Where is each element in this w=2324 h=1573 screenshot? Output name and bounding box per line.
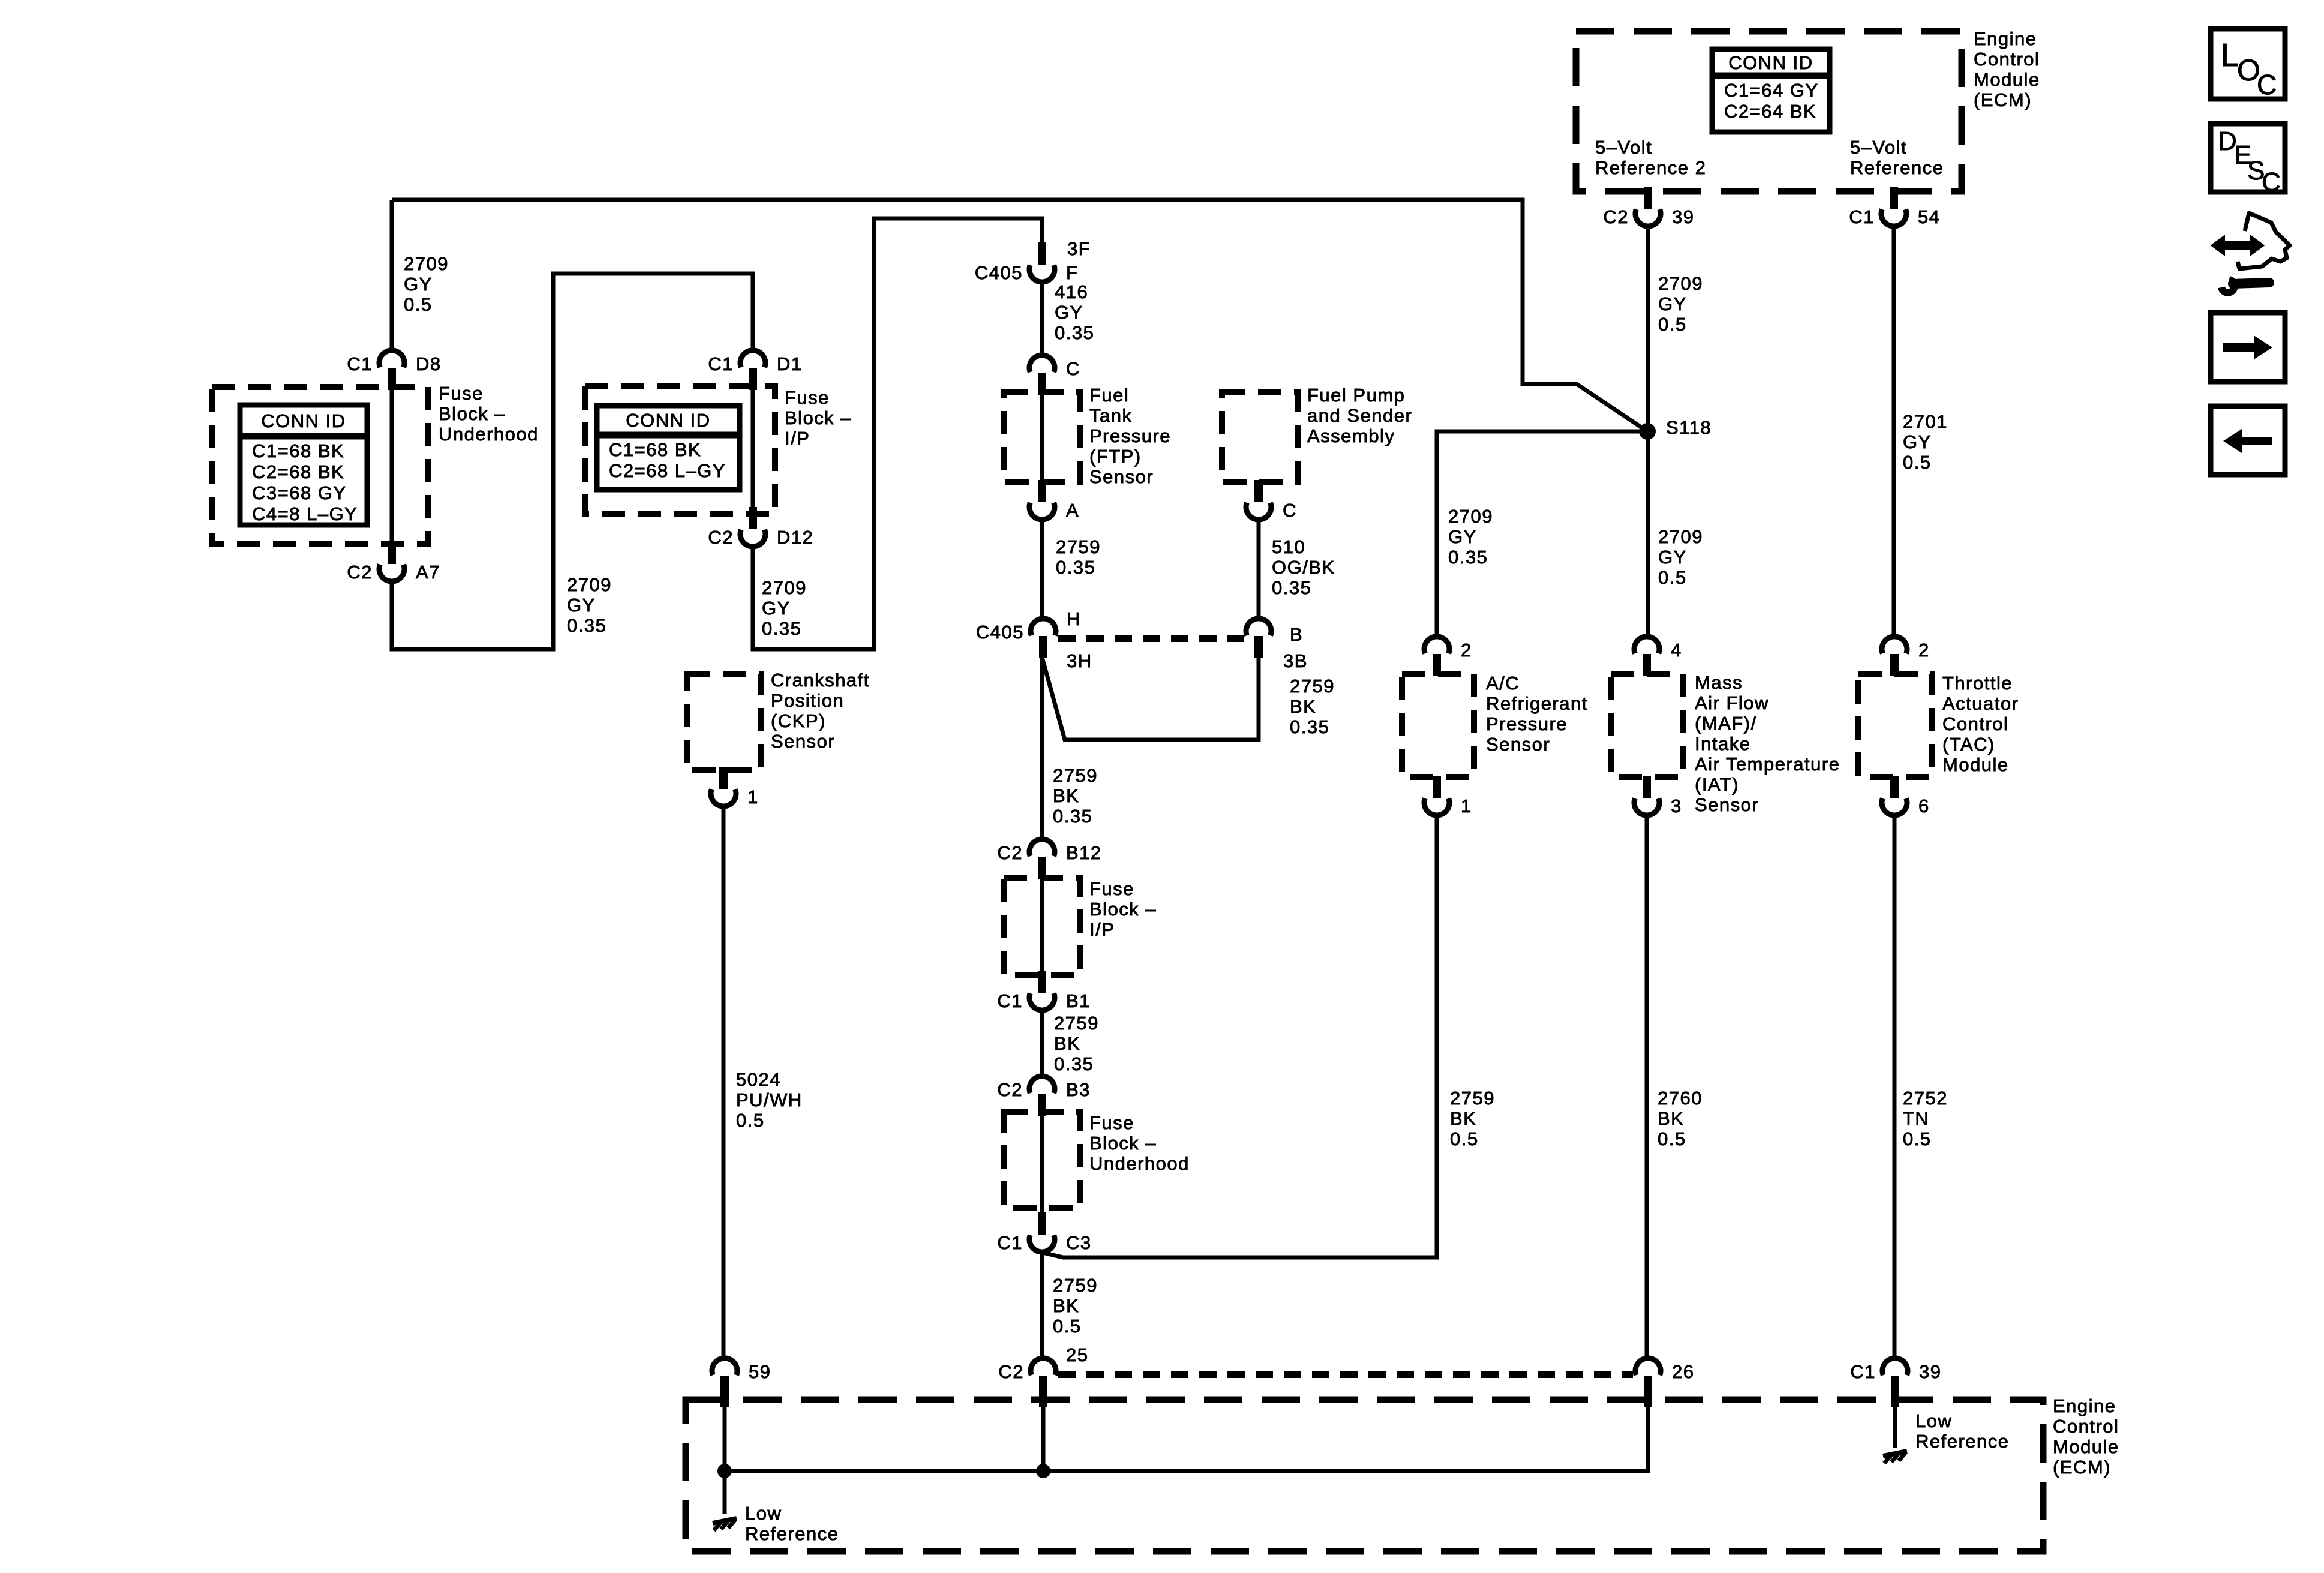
svg-text:C2: C2 — [1603, 206, 1629, 227]
svg-text:Module: Module — [1974, 69, 2040, 90]
connector C405 pin F — [975, 242, 1079, 283]
ground low reference right — [1883, 1451, 1907, 1463]
svg-text:C1: C1 — [708, 353, 734, 374]
connector FTP sensor pin A — [1029, 480, 1079, 521]
connector ECM C1 pin 39 (low reference) — [1850, 1358, 1941, 1407]
svg-text:C1=68 BK: C1=68 BK — [252, 440, 344, 461]
svg-text:0.5: 0.5 — [404, 294, 433, 315]
svg-text:Fuse: Fuse — [439, 383, 484, 404]
connector ECM C2 pin 25 — [998, 1358, 1056, 1407]
label Mass Air Flow (MAF)/Intake Air Temperature (IAT) Sensor — [1695, 672, 1840, 815]
wire 2709 GY 0.5 from ECM C2 39 through S118 to MAF pin 4 — [1646, 226, 1650, 637]
fuel tank pressure (FTP) sensor box — [1004, 392, 1080, 482]
svg-text:B: B — [1290, 624, 1303, 645]
svg-text:BK: BK — [1054, 1033, 1080, 1054]
svg-text:2709: 2709 — [1448, 506, 1493, 527]
svg-text:Fuel Pump: Fuel Pump — [1307, 385, 1405, 406]
wire 2759 BK 0.5 branch from C3 to A/C pressure sensor pin 1 — [1043, 815, 1437, 1257]
label Fuse Block - I/P 2 — [1089, 878, 1157, 940]
svg-text:C2=68 L–GY: C2=68 L–GY — [609, 460, 726, 481]
svg-text:2760: 2760 — [1658, 1088, 1703, 1109]
svg-text:(TAC): (TAC) — [1942, 734, 1995, 755]
svg-text:510: 510 — [1272, 536, 1305, 557]
svg-text:(MAF)/: (MAF)/ — [1695, 713, 1757, 734]
connector A/C pressure sensor pin 2 — [1424, 637, 1472, 676]
svg-text:OG/BK: OG/BK — [1272, 557, 1335, 578]
svg-text:GY: GY — [1658, 547, 1687, 568]
svg-text:Position: Position — [771, 690, 844, 711]
splice S118 — [1639, 423, 1656, 440]
fuse block - I/P box 1 — [585, 386, 775, 514]
connector ECM C2 pin 39 (5-volt reference 2) — [1603, 187, 1694, 227]
svg-text:(IAT): (IAT) — [1695, 774, 1739, 795]
connector fuel pump pin C — [1246, 480, 1297, 521]
svg-text:BK: BK — [1290, 696, 1316, 717]
svg-text:0.35: 0.35 — [1272, 577, 1311, 598]
junction low reference bus at pin 25 — [1036, 1464, 1050, 1478]
svg-text:GY: GY — [762, 598, 791, 619]
icon LOC box — [2211, 29, 2285, 100]
svg-text:D8: D8 — [416, 353, 442, 374]
wire 2701 GY 0.5 from ECM C1 54 to TAC module pin 2 — [1892, 226, 1896, 637]
wire 2709 GY 0.5 from S118 up/left to Fuse Block Underhood C1 D8 — [392, 200, 1647, 431]
connector C2 B12 fuse block I/P — [997, 839, 1101, 879]
svg-text:Block –: Block – — [439, 403, 506, 424]
svg-text:2759: 2759 — [1053, 1275, 1098, 1296]
icon DESC box — [2211, 124, 2285, 197]
crankshaft position (CKP) sensor box — [687, 674, 761, 770]
svg-text:F: F — [1066, 262, 1078, 283]
label Crankshaft Position (CKP) Sensor — [771, 670, 870, 752]
svg-text:2709: 2709 — [1658, 273, 1703, 294]
fuse block - underhood box 2 — [1004, 1112, 1080, 1208]
svg-text:and Sender: and Sender — [1307, 405, 1412, 426]
svg-text:1: 1 — [1461, 795, 1472, 816]
svg-text:(ECM): (ECM) — [2053, 1457, 2111, 1478]
svg-text:C: C — [2257, 69, 2278, 100]
wire 5024 PU/WH 0.5 from CKP sensor pin 1 to ECM pin 59 — [722, 806, 726, 1359]
svg-text:2709: 2709 — [762, 577, 807, 598]
wire label 5024 PU/WH 0.5 — [736, 1069, 803, 1131]
wire 2709 GY 0.35 from A7 to Fuse Block I/P C1 D1 — [392, 274, 753, 649]
svg-text:0.5: 0.5 — [736, 1110, 765, 1131]
CONN ID table (ECM): C1=64 GY, C2=64 BK — [1712, 49, 1830, 132]
svg-text:Tank: Tank — [1089, 405, 1132, 426]
svg-text:6: 6 — [1918, 795, 1930, 816]
svg-text:Throttle: Throttle — [1942, 673, 2013, 694]
label 5-Volt Reference 2 — [1595, 137, 1706, 178]
svg-text:Control: Control — [1974, 49, 2040, 70]
wire through Fuse Block I/P B12 to B1 — [1040, 879, 1044, 974]
svg-text:0.35: 0.35 — [1290, 716, 1329, 737]
wire label 2752 TN 0.5 (TAC pin 6) — [1903, 1088, 1948, 1149]
label 5-Volt Reference — [1850, 137, 1944, 178]
svg-text:Sensor: Sensor — [1486, 734, 1550, 755]
label 25 — [1066, 1344, 1088, 1365]
svg-text:(FTP): (FTP) — [1089, 446, 1142, 467]
svg-text:PU/WH: PU/WH — [736, 1089, 803, 1110]
svg-text:2: 2 — [1918, 640, 1930, 661]
svg-text:C1=64 GY: C1=64 GY — [1724, 80, 1819, 101]
svg-text:0.35: 0.35 — [567, 615, 606, 636]
svg-text:GY: GY — [567, 595, 596, 616]
connector CKP sensor pin 1 — [711, 767, 759, 807]
svg-text:Module: Module — [1942, 754, 2009, 775]
svg-text:0.5: 0.5 — [1658, 567, 1687, 588]
icon double arrow with outline and wrench — [2212, 213, 2290, 293]
svg-text:GY: GY — [1055, 302, 1083, 323]
label 3H — [1067, 650, 1092, 671]
wire 2759 BK 0.35 from C405 B joining H junction — [1043, 658, 1259, 740]
wire label 2759 BK 0.5 (A/C pin 1) — [1450, 1088, 1495, 1149]
wire 510 OG/BK 0.35 from fuel pump C to C405 B — [1257, 520, 1261, 619]
svg-text:0.35: 0.35 — [1053, 806, 1092, 827]
svg-text:C4=8 L–GY: C4=8 L–GY — [252, 503, 358, 524]
svg-text:1: 1 — [747, 786, 759, 807]
svg-text:0.35: 0.35 — [1055, 322, 1094, 343]
wire 416 GY 0.35 from C405 F to FTP sensor pin C — [1040, 282, 1044, 356]
svg-text:Control: Control — [2053, 1416, 2119, 1437]
svg-text:2: 2 — [1461, 640, 1472, 661]
wire 2759 0.35 from FTP A to C405 H — [1040, 520, 1044, 619]
wire label 2709 GY 0.35 (D12) — [762, 577, 807, 639]
label Low Reference left — [745, 1503, 839, 1544]
svg-text:39: 39 — [1919, 1361, 1941, 1382]
connector C2 D12 fuse block I/P — [708, 507, 813, 548]
label Engine Control Module (ECM) top — [1974, 28, 2040, 110]
svg-text:(CKP): (CKP) — [771, 710, 826, 731]
svg-text:Underhood: Underhood — [1089, 1153, 1190, 1174]
throttle actuator control (TAC) module box — [1858, 674, 1932, 777]
wire label 2709 GY 0.35 (A/C pin 2) — [1448, 506, 1493, 568]
svg-text:Actuator: Actuator — [1942, 693, 2019, 714]
icon forward arrow box — [2211, 313, 2285, 382]
svg-text:2759: 2759 — [1053, 765, 1098, 786]
label B — [1290, 624, 1303, 645]
mass air flow (MAF)/IAT sensor box — [1611, 674, 1683, 777]
svg-text:A/C: A/C — [1486, 673, 1520, 694]
svg-text:C1: C1 — [1850, 1361, 1876, 1382]
connector TAC module pin 2 — [1882, 637, 1930, 676]
wire label 2759 BK 0.35 (3B) — [1290, 676, 1335, 737]
connector C2 A7 fuse block underhood — [347, 542, 440, 583]
svg-text:I/P: I/P — [785, 428, 810, 449]
wire 2752 TN 0.5 from TAC pin 6 to ECM C1 39 — [1893, 815, 1897, 1359]
connector C405 pin H — [976, 619, 1056, 658]
svg-text:H: H — [1067, 608, 1081, 629]
wire label 2759 BK 0.35 (B1-B3) — [1054, 1013, 1099, 1074]
svg-text:26: 26 — [1672, 1361, 1694, 1382]
ground low reference left — [713, 1518, 737, 1530]
connector ECM C1 pin 54 (5-volt reference) — [1849, 187, 1940, 227]
svg-text:C1: C1 — [997, 1232, 1023, 1253]
label 3F — [1067, 238, 1091, 259]
svg-text:Engine: Engine — [2053, 1395, 2116, 1416]
svg-text:Fuse: Fuse — [785, 387, 830, 408]
engine control module (ECM) top box — [1576, 31, 1962, 191]
label 3B — [1283, 650, 1308, 671]
label Fuel Pump and Sender Assembly — [1307, 385, 1412, 446]
svg-text:C1: C1 — [997, 990, 1023, 1011]
svg-text:GY: GY — [1903, 431, 1932, 452]
svg-text:C2: C2 — [997, 1079, 1023, 1100]
svg-text:Control: Control — [1942, 713, 2008, 734]
svg-text:C2=64 BK: C2=64 BK — [1724, 101, 1816, 122]
svg-text:C2: C2 — [347, 562, 373, 583]
wire label 2709 GY 0.5 (above S118) — [1658, 273, 1703, 335]
svg-text:CONN ID: CONN ID — [1728, 52, 1813, 73]
svg-text:2752: 2752 — [1903, 1088, 1948, 1109]
svg-text:0.35: 0.35 — [1054, 1053, 1094, 1074]
label Fuse Block - I/P 1 — [785, 387, 852, 449]
wire label 2759 BK 0.5 (C3-25) — [1053, 1275, 1098, 1337]
svg-text:BK: BK — [1658, 1108, 1684, 1129]
svg-text:Block –: Block – — [1089, 1133, 1157, 1154]
wire label 2759 BK 0.35 (H-B12) — [1053, 765, 1098, 827]
svg-text:CONN ID: CONN ID — [626, 410, 710, 431]
svg-text:C2: C2 — [708, 527, 734, 548]
svg-text:Intake: Intake — [1695, 733, 1750, 754]
svg-text:Pressure: Pressure — [1089, 425, 1171, 446]
label Throttle Actuator Control (TAC) Module — [1942, 673, 2019, 775]
svg-text:2759: 2759 — [1290, 676, 1335, 697]
wire drop to connector C1 D8 — [390, 200, 394, 351]
svg-text:416: 416 — [1055, 281, 1088, 302]
connector MAF sensor pin 4 — [1634, 637, 1682, 676]
wire 2759 BK 0.35 from C405 H down to C2 B12 — [1040, 658, 1044, 840]
svg-text:BK: BK — [1450, 1108, 1476, 1129]
dashed connector link C405 H to B — [1058, 635, 1244, 642]
svg-text:Sensor: Sensor — [1695, 794, 1759, 815]
CONN ID table (I/P): C1=68 BK, C2=68 L-GY — [597, 406, 740, 490]
wire through Fuse Block Underhood D8 to A7 — [390, 390, 394, 546]
svg-text:2709: 2709 — [404, 253, 449, 274]
connector FTP sensor pin C — [1029, 355, 1080, 395]
wire through FTP sensor C to A — [1040, 395, 1044, 484]
label H — [1067, 608, 1081, 629]
svg-text:3B: 3B — [1283, 650, 1308, 671]
svg-text:2709: 2709 — [567, 574, 612, 595]
svg-text:2759: 2759 — [1450, 1088, 1495, 1109]
connector ECM pin 26 — [1635, 1358, 1694, 1407]
label Fuse Block - Underhood 1 — [439, 383, 539, 445]
svg-text:C405: C405 — [975, 262, 1023, 283]
svg-text:0.35: 0.35 — [1056, 557, 1095, 578]
wire inside ECM from pin 25 to low reference bus — [1041, 1398, 1046, 1471]
svg-text:B3: B3 — [1066, 1079, 1091, 1100]
wire label 2759 0.35 — [1056, 536, 1101, 578]
wire through Fuse Block I/P D1 to D12 — [751, 390, 755, 510]
svg-text:0.5: 0.5 — [1658, 1128, 1686, 1149]
svg-text:Sensor: Sensor — [1089, 466, 1154, 487]
svg-text:5–Volt: 5–Volt — [1595, 137, 1652, 158]
svg-text:C: C — [1066, 358, 1080, 379]
svg-text:Underhood: Underhood — [439, 424, 539, 445]
svg-text:GY: GY — [404, 274, 433, 295]
svg-text:59: 59 — [749, 1361, 771, 1382]
svg-text:Air Flow: Air Flow — [1695, 692, 1769, 713]
svg-text:C1: C1 — [347, 353, 373, 374]
svg-text:25: 25 — [1066, 1344, 1088, 1365]
svg-text:4: 4 — [1671, 640, 1682, 661]
svg-text:C405: C405 — [976, 622, 1024, 643]
wire 2760 BK 0.5 from MAF pin 3 to ECM pin 26 — [1645, 815, 1649, 1359]
svg-text:0.35: 0.35 — [762, 618, 801, 639]
wire 2759 BK 0.5 from C3 down to ECM pin 25 — [1040, 1252, 1044, 1359]
svg-text:Sensor: Sensor — [771, 731, 835, 752]
svg-text:Air Temperature: Air Temperature — [1695, 754, 1840, 775]
svg-text:Reference: Reference — [745, 1523, 839, 1544]
svg-text:0.5: 0.5 — [1903, 1128, 1932, 1149]
wire to ground low reference right — [1893, 1398, 1897, 1448]
svg-text:D1: D1 — [777, 353, 803, 374]
svg-text:Mass: Mass — [1695, 672, 1743, 693]
label Fuel Tank Pressure (FTP) Sensor — [1089, 385, 1171, 487]
wire 2709 GY 0.35 from D12 to C405 F — [753, 218, 1042, 649]
svg-text:Fuel: Fuel — [1089, 385, 1129, 406]
fuel pump and sender assembly box — [1222, 392, 1298, 482]
svg-text:Low: Low — [1915, 1410, 1952, 1431]
svg-text:0.5: 0.5 — [1053, 1316, 1082, 1337]
wire label 510 OG/BK 0.35 — [1272, 536, 1335, 598]
svg-text:Refrigerant: Refrigerant — [1486, 693, 1588, 714]
connector C1 D1 fuse block I/P — [708, 350, 802, 390]
svg-text:C1: C1 — [1849, 206, 1875, 227]
svg-text:2709: 2709 — [1658, 526, 1703, 547]
svg-text:CONN ID: CONN ID — [261, 410, 346, 431]
label Fuse Block - Underhood 2 — [1089, 1112, 1190, 1174]
wire label 2760 BK 0.5 (MAF pin 3) — [1658, 1088, 1703, 1149]
svg-text:0.5: 0.5 — [1658, 314, 1687, 335]
connector TAC module pin 6 — [1882, 776, 1930, 816]
wire inside ECM from pin 59 to low reference bus — [723, 1398, 727, 1471]
svg-text:Low: Low — [745, 1503, 782, 1524]
wire label 2709 GY 0.35 (A7-D1) — [567, 574, 612, 636]
svg-text:Block –: Block – — [785, 407, 852, 428]
svg-text:Block –: Block – — [1089, 899, 1157, 920]
svg-text:3F: 3F — [1067, 238, 1091, 259]
svg-text:Assembly: Assembly — [1307, 425, 1395, 446]
svg-text:C2=68 BK: C2=68 BK — [252, 461, 344, 482]
wire 2759 BK 0.35 from B1 to B3 — [1040, 1010, 1044, 1077]
connector C2 B3 fuse block underhood — [997, 1076, 1091, 1116]
low reference bus inside ECM to pin 26 — [725, 1398, 1648, 1471]
svg-text:A: A — [1066, 500, 1079, 521]
svg-text:BK: BK — [1053, 1295, 1079, 1316]
svg-text:I/P: I/P — [1089, 919, 1115, 940]
svg-text:Crankshaft: Crankshaft — [771, 670, 870, 691]
svg-text:A7: A7 — [416, 562, 440, 583]
label A/C Refrigerant Pressure Sensor — [1486, 673, 1588, 755]
svg-text:Reference: Reference — [1850, 157, 1944, 178]
wire through Fuse Block Underhood B3 to C3 — [1040, 1116, 1044, 1215]
svg-text:B1: B1 — [1066, 990, 1091, 1011]
svg-text:Reference: Reference — [1915, 1431, 2010, 1452]
engine control module (ECM) bottom box — [686, 1400, 2043, 1551]
svg-text:Module: Module — [2053, 1436, 2119, 1457]
svg-text:Fuse: Fuse — [1089, 1112, 1134, 1133]
fuse block - underhood box 1 — [212, 387, 428, 544]
svg-text:(ECM): (ECM) — [1974, 89, 2032, 110]
label Low Reference right — [1915, 1410, 2010, 1452]
svg-text:GY: GY — [1448, 526, 1477, 547]
svg-text:5–Volt: 5–Volt — [1850, 137, 1907, 158]
svg-text:Engine: Engine — [1974, 28, 2037, 49]
fuse block - I/P box 2 — [1004, 878, 1080, 975]
svg-text:0.35: 0.35 — [1448, 547, 1488, 568]
svg-text:2701: 2701 — [1903, 411, 1948, 432]
svg-text:S118: S118 — [1666, 417, 1712, 438]
A/C refrigerant pressure sensor box — [1402, 674, 1474, 777]
svg-text:39: 39 — [1672, 206, 1694, 227]
connector ECM pin 59 — [712, 1358, 771, 1407]
svg-text:C2: C2 — [998, 1361, 1024, 1382]
svg-text:2759: 2759 — [1056, 536, 1101, 557]
svg-text:B12: B12 — [1066, 842, 1102, 863]
connector A/C pressure sensor pin 1 — [1424, 776, 1472, 816]
svg-text:0.5: 0.5 — [1903, 452, 1932, 473]
wire to ground low reference left — [723, 1471, 727, 1514]
CONN ID table (underhood): C1=68 BK C2=68 BK C3=68 GY C4=8 L-GY — [240, 405, 367, 525]
svg-text:BK: BK — [1053, 785, 1079, 806]
label Engine Control Module (ECM) bottom — [2053, 1395, 2119, 1478]
svg-text:Reference 2: Reference 2 — [1595, 157, 1706, 178]
svg-text:C: C — [1283, 500, 1297, 521]
wire label 2701 GY 0.5 — [1903, 411, 1948, 473]
svg-text:54: 54 — [1918, 206, 1940, 227]
icon back arrow box — [2211, 406, 2285, 475]
wire 2709 GY 0.35 from S118 to A/C pressure sensor pin 2 — [1437, 431, 1647, 637]
dashed internal ECM link pin 25 to pin 26 — [1058, 1371, 1633, 1378]
connector MAF sensor pin 3 — [1634, 776, 1682, 816]
connector C1 B1 fuse block I/P — [997, 971, 1091, 1011]
svg-text:2759: 2759 — [1054, 1013, 1099, 1034]
svg-text:C1=68 BK: C1=68 BK — [609, 439, 701, 460]
svg-text:GY: GY — [1658, 293, 1687, 314]
svg-text:0.5: 0.5 — [1450, 1128, 1479, 1149]
svg-text:Pressure: Pressure — [1486, 713, 1568, 734]
junction low reference bus left — [717, 1464, 732, 1478]
svg-text:Fuse: Fuse — [1089, 878, 1134, 899]
wire label 416 GY 0.35 — [1055, 281, 1094, 343]
wire label 2709 GY 0.5 (below S118) — [1658, 526, 1703, 588]
connector C1 C3 fuse block underhood — [997, 1212, 1091, 1253]
connector C1 D8 fuse block underhood — [347, 350, 441, 390]
svg-text:TN: TN — [1903, 1108, 1929, 1129]
svg-text:5024: 5024 — [736, 1069, 781, 1090]
svg-text:C3: C3 — [1066, 1232, 1092, 1253]
svg-text:D12: D12 — [777, 527, 813, 548]
svg-text:3H: 3H — [1067, 650, 1092, 671]
svg-text:C2: C2 — [997, 842, 1023, 863]
connector C405 pin B — [1246, 619, 1271, 658]
svg-text:C3=68 GY: C3=68 GY — [252, 482, 347, 503]
label S118 — [1666, 417, 1712, 438]
wire label 2709 GY 0.5 (D8) — [404, 253, 449, 315]
svg-text:3: 3 — [1671, 795, 1682, 816]
svg-text:C: C — [2262, 167, 2281, 197]
